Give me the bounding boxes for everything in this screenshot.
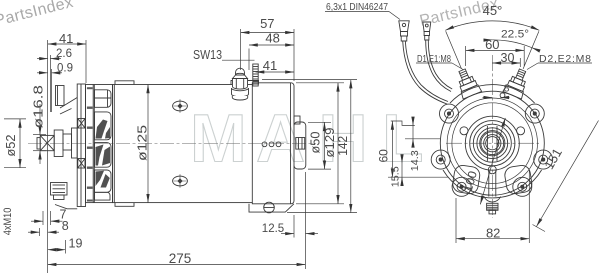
svg-text:ø52: ø52 <box>4 134 18 156</box>
flange plate <box>77 84 85 207</box>
screw top-right <box>530 109 539 118</box>
screw bottom-right <box>518 182 527 191</box>
dimension 7 line <box>31 211 63 225</box>
face circle <box>452 103 533 184</box>
dimension 2.6 line <box>37 58 61 60</box>
svg-text:60: 60 <box>377 149 391 163</box>
top terminal boss <box>450 85 535 104</box>
extension line x240.6 <box>240 29 242 70</box>
radial line right 22.5deg <box>523 31 539 69</box>
leader D1 <box>452 63 463 70</box>
dimension o52 line <box>4 119 26 168</box>
svg-text:ø125: ø125 <box>135 125 150 161</box>
watermark MAHLE letter M <box>190 101 424 177</box>
extension line x86 <box>85 40 87 83</box>
dimension o16.8 arrows <box>33 104 46 164</box>
CE cap rivets <box>262 142 267 147</box>
shaft collar <box>54 130 63 157</box>
lobe boss mid-left <box>431 150 450 169</box>
terminal stud D2 right <box>503 66 532 99</box>
label D1,E1:M8 underline <box>416 62 452 64</box>
svg-text:ø129: ø129 <box>323 127 337 157</box>
lobe boss top-left <box>440 104 459 123</box>
dimension 30 top line <box>492 62 520 64</box>
center bottom rib left <box>488 170 490 197</box>
svg-text:8: 8 <box>504 83 510 95</box>
shaft washer <box>72 128 78 158</box>
CE bottom screw <box>264 202 275 213</box>
dimension o50 line <box>308 122 331 169</box>
screw mid-left <box>436 155 445 164</box>
retainer screw right <box>517 127 525 135</box>
svg-text:M: M <box>190 101 247 177</box>
shaft threaded section with cross <box>40 135 54 150</box>
yoke bottom band bump <box>115 203 134 207</box>
end shield bottom skirt <box>443 170 542 198</box>
vent slot column divider lines <box>92 85 94 203</box>
flange upper lug <box>56 86 65 106</box>
yoke outline <box>113 85 253 203</box>
svg-text:ø50: ø50 <box>309 131 323 153</box>
svg-text:275: 275 <box>169 251 192 266</box>
dimension 100 diagonal <box>480 118 505 204</box>
svg-text:15.5: 15.5 <box>390 166 402 187</box>
terminal stud D1 left <box>453 66 482 99</box>
extension line right stud to 30 dim <box>519 58 521 67</box>
extension line x50.4 <box>49 55 51 112</box>
hub inner circle <box>473 124 511 162</box>
dimension 41 top-left line <box>48 43 86 45</box>
terminal dome nut SW13 <box>232 79 248 97</box>
svg-text:151: 151 <box>541 146 565 172</box>
dimension o125 line <box>147 85 149 203</box>
rear bearing cap nut <box>296 138 305 150</box>
lobe boss bottom-right <box>513 177 532 196</box>
svg-text:4xM10: 4xM10 <box>2 208 14 236</box>
flange lower lug M10 <box>51 183 68 196</box>
dimension 57 line <box>241 32 294 34</box>
extension line left stud to 60 dim <box>465 46 467 66</box>
svg-text:57: 57 <box>260 16 274 31</box>
shaft bore circle <box>486 137 499 150</box>
top boss hole <box>500 93 505 98</box>
skirt inner ring <box>447 98 537 188</box>
terminal base on yoke <box>231 81 259 85</box>
flange arm upper diagonal <box>60 98 77 109</box>
vent window 5 <box>95 192 111 200</box>
svg-text:6,3x1 DIN46247: 6,3x1 DIN46247 <box>326 1 388 13</box>
screw bottom-left <box>457 182 466 191</box>
label 6,3x1 DIN46247 underline <box>325 11 389 13</box>
leader D2 <box>527 63 538 70</box>
vent slot marks left column <box>87 87 93 201</box>
yoke screw upper <box>173 99 188 113</box>
svg-text:PartsIndex: PartsIndex <box>0 0 75 30</box>
svg-text:19: 19 <box>69 236 83 250</box>
dimension 151 diagonal <box>533 121 599 232</box>
bearing circle <box>477 128 508 159</box>
vent window 3 with fan blade <box>95 143 112 168</box>
extension line x47.6 <box>47 40 49 273</box>
svg-text:0.9: 0.9 <box>57 63 73 75</box>
terminal stud threaded <box>253 64 258 86</box>
SW13 leader <box>222 59 255 61</box>
yoke joint line <box>112 85 114 203</box>
leader to connector <box>389 12 400 20</box>
extension line x51.5 <box>51 69 53 112</box>
svg-text:48: 48 <box>265 31 279 46</box>
hub circle <box>470 121 515 166</box>
svg-text:2.6: 2.6 <box>56 48 72 60</box>
spade connector 6.3x1 left <box>399 21 409 41</box>
wire from left connector <box>403 41 447 104</box>
retainer screw left <box>460 127 468 135</box>
dimension 48 line <box>249 44 294 46</box>
extension line x305.4 <box>304 172 306 269</box>
screw top-left <box>445 109 454 118</box>
dimension 41 top-right line <box>256 71 295 73</box>
arc 22.5deg <box>492 40 532 48</box>
CE top small boss <box>294 116 300 124</box>
bottom stud threaded <box>487 203 498 210</box>
flange lug step <box>54 195 65 200</box>
screw mid-right <box>539 155 548 164</box>
CE end cap <box>252 83 294 204</box>
svg-text:45°: 45° <box>483 3 503 18</box>
rear bearing boss o50 <box>294 122 306 169</box>
bearing upper section <box>78 119 85 129</box>
svg-text:30: 30 <box>501 51 515 65</box>
dimension 15.5 line <box>388 155 448 186</box>
dimension 19 line <box>48 240 66 254</box>
yoke screw lower <box>173 174 188 188</box>
svg-text:142: 142 <box>336 136 350 156</box>
dimension 60 left line <box>391 121 415 177</box>
shaft mid section <box>63 134 72 150</box>
dimension 0.9 line <box>37 72 62 74</box>
svg-text:82: 82 <box>486 226 500 241</box>
radial line left 22.5deg <box>446 31 462 69</box>
spade connector 6.3x1 right <box>423 22 431 40</box>
pocket bottom-left <box>452 164 481 195</box>
svg-text:41: 41 <box>59 31 73 46</box>
label D2,E2:M8 underline <box>538 62 592 64</box>
dimension 275 line <box>48 264 306 266</box>
extension line x249 <box>248 49 250 71</box>
extension line x294 up <box>293 29 295 81</box>
bottom stud boss <box>484 197 501 203</box>
dimension 8 stud marks <box>483 97 510 99</box>
svg-text:ø16.8: ø16.8 <box>31 85 46 128</box>
end shield outer circle <box>440 91 544 195</box>
dimension 8 line <box>28 228 59 236</box>
svg-text:41: 41 <box>263 58 277 73</box>
lobe boss bottom-left <box>452 177 471 196</box>
vent window 1 <box>95 90 112 108</box>
DE bracket outline <box>86 85 113 203</box>
CE cap bottom boss <box>249 204 294 212</box>
svg-text:SW13: SW13 <box>193 47 222 62</box>
end view horizontal centerline <box>446 142 539 144</box>
pocket bottom-right <box>504 164 533 195</box>
svg-text:D2,E2:M8: D2,E2:M8 <box>539 53 591 65</box>
shaft circle <box>484 135 501 152</box>
centerline shaft <box>28 142 316 144</box>
vent window 2 with fan blade <box>95 112 112 140</box>
shaft flats <box>486 126 488 161</box>
lobe boss top-right <box>525 104 544 123</box>
svg-text:D1,E1:M8: D1,E1:M8 <box>417 53 451 65</box>
arc 45deg <box>445 21 539 30</box>
extension line right stud to 60 dim <box>523 46 525 66</box>
dimension 82 line <box>456 170 529 243</box>
yoke top band bump <box>115 81 134 85</box>
svg-text:A: A <box>256 101 305 177</box>
end view vertical centerline <box>491 55 493 218</box>
wire from right connector <box>426 40 451 92</box>
flange foot <box>55 205 77 209</box>
dimension 142 line <box>262 80 357 213</box>
hub circle outer <box>465 116 519 170</box>
lobe boss mid-right <box>534 150 553 169</box>
vent window 4 with fan blade <box>95 170 112 192</box>
bearing race outer <box>480 131 505 156</box>
svg-text:14.3: 14.3 <box>409 150 421 171</box>
svg-text:8: 8 <box>62 219 69 233</box>
svg-text:60: 60 <box>485 37 499 52</box>
dimension 60 top line <box>466 49 525 51</box>
center bottom rib right <box>495 170 497 197</box>
dimension 12.5 line <box>281 215 318 238</box>
bearing race inner <box>481 132 504 155</box>
bearing lower section <box>78 159 85 169</box>
dimension o129 line <box>296 83 344 204</box>
svg-text:12.5: 12.5 <box>262 223 284 235</box>
dimension 14.3 line <box>405 117 440 147</box>
shaft tip <box>37 138 40 149</box>
svg-text:22.5°: 22.5° <box>501 29 529 41</box>
retainer screw bottom <box>488 166 496 174</box>
